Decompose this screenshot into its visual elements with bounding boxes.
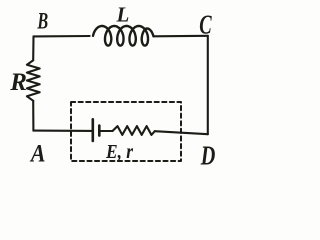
svg-text:L: L [116,3,130,27]
resistor R [27,60,40,101]
wire left upper (B to R) [32,36,34,59]
battery E long plate [92,119,95,141]
wire battery to resistor r [99,130,112,132]
wire right (C to D) [207,36,209,134]
inductor L [93,26,154,46]
wire top-right (L to C) [154,35,208,38]
svg-text:D: D [200,141,215,171]
resistor r (internal) [113,126,155,135]
svg-text:E, r: E, r [105,141,133,163]
wire bottom-right (r to D) [155,131,208,134]
svg-text:C: C [199,10,212,40]
svg-text:A: A [29,141,45,168]
svg-text:B: B [37,9,49,34]
wire bottom-left (A to battery) [33,130,92,132]
source enclosure box E,r (dashed) [71,102,181,161]
battery E short plate [98,126,101,136]
wire top-left (B to L) [34,35,90,38]
svg-text:R: R [9,69,27,96]
wire left lower (R to A) [32,101,34,131]
